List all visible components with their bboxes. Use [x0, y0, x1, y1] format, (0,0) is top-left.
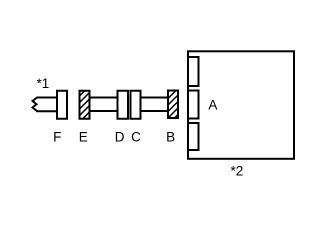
svg-text:D: D — [115, 129, 125, 144]
svg-text:C: C — [131, 129, 141, 144]
hatched component B — [168, 91, 178, 119]
component F flange — [57, 91, 67, 119]
hatched component E — [80, 91, 90, 119]
svg-text:*1: *1 — [37, 76, 50, 91]
component C — [131, 91, 141, 119]
svg-text:A: A — [208, 97, 217, 112]
svg-text:F: F — [53, 129, 61, 144]
receptacle box *2 — [188, 51, 294, 159]
svg-text:B: B — [166, 129, 175, 144]
contact slot 3 — [188, 123, 199, 150]
svg-text:*2: *2 — [231, 163, 244, 178]
component D — [118, 91, 129, 119]
cable end F plug (break zigzag) — [33, 98, 58, 112]
contact slot 1 — [188, 57, 199, 86]
rod E to D — [90, 98, 119, 112]
svg-text:E: E — [79, 129, 88, 144]
rod C to B — [141, 98, 169, 112]
contact slot 2 — [188, 91, 199, 119]
